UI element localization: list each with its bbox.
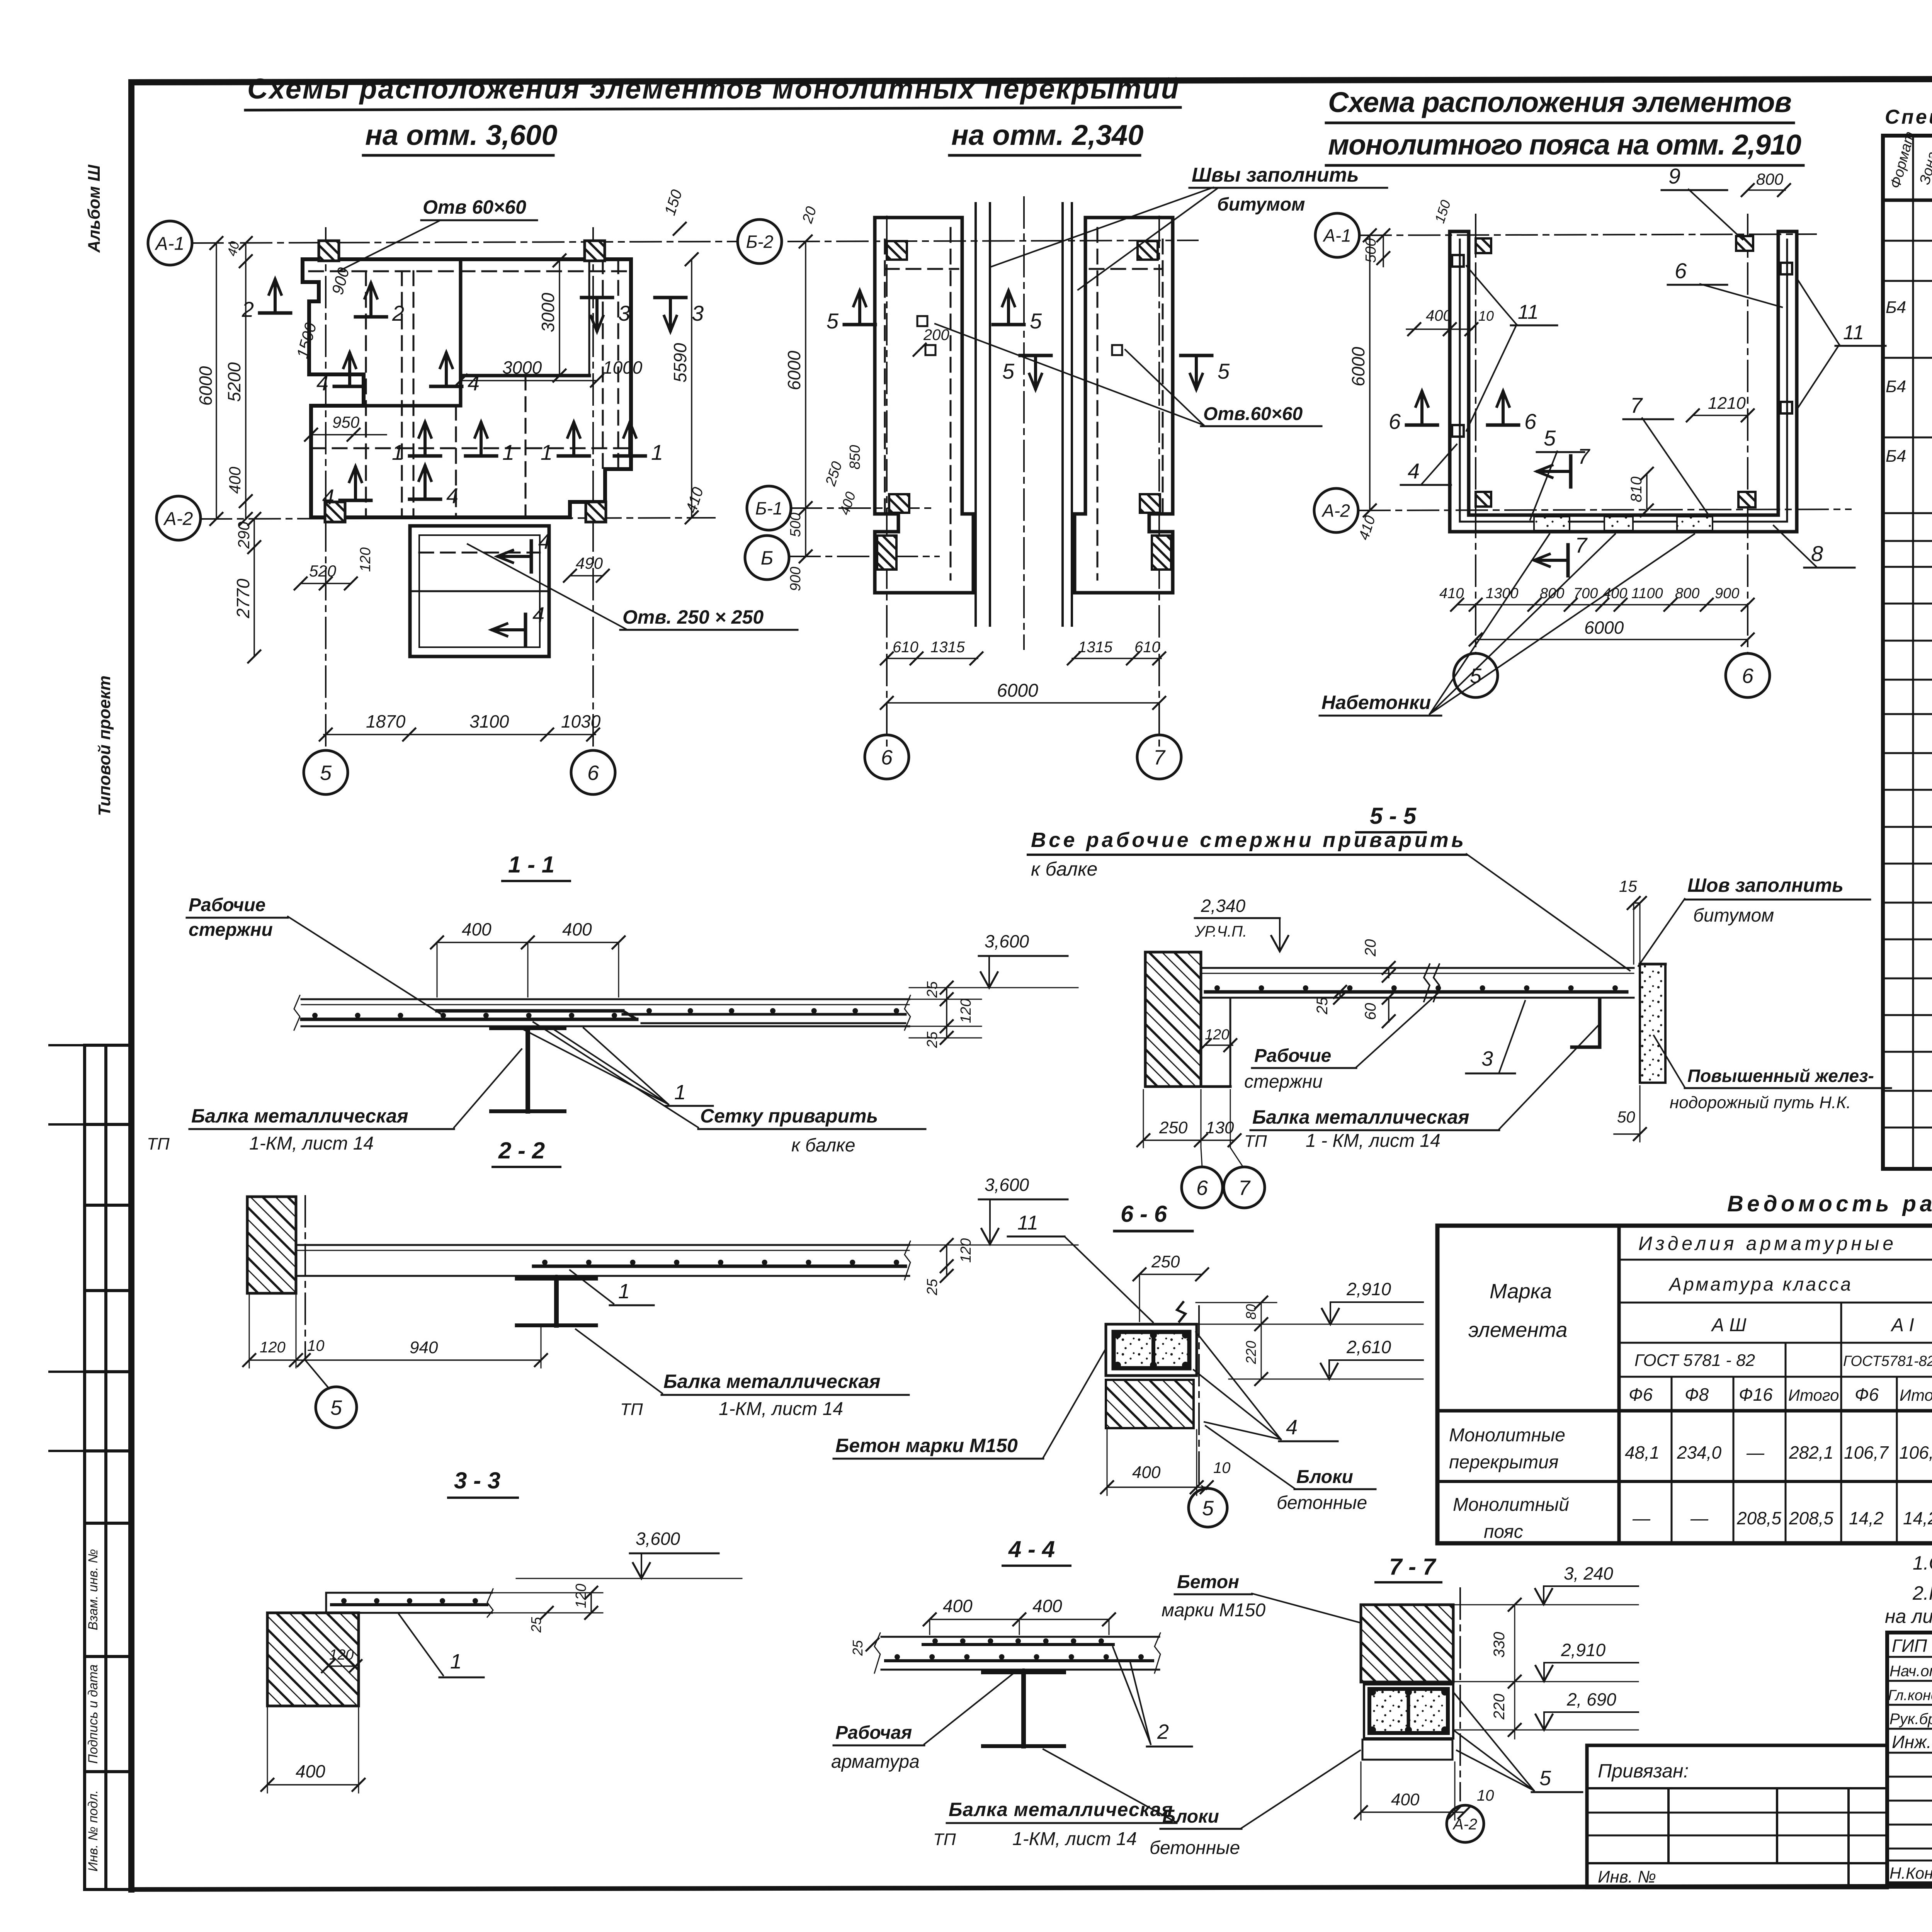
svg-text:4: 4	[538, 529, 550, 553]
svg-text:1: 1	[392, 440, 404, 464]
svg-text:6: 6	[1389, 409, 1401, 434]
section 2-2	[243, 1138, 1078, 1428]
plan1 bottom dimensions	[324, 734, 595, 735]
svg-text:Б4: Б4	[1886, 298, 1906, 317]
svg-text:Балка металлическая: Балка металлическая	[663, 1371, 881, 1392]
left margin rotated labels	[86, 1549, 100, 1872]
svg-text:5: 5	[1539, 1767, 1551, 1790]
svg-text:1-КМ, лист 14: 1-КМ, лист 14	[719, 1399, 843, 1419]
svg-text:—: —	[1690, 1508, 1709, 1528]
column pad 5/A-1	[319, 241, 339, 261]
svg-text:1 - 1: 1 - 1	[508, 852, 554, 878]
svg-text:ТП: ТП	[1244, 1132, 1267, 1151]
svg-text:Н.Контр.: Н.Контр.	[1889, 1864, 1932, 1882]
axis circle B-1	[747, 486, 791, 530]
svg-text:25: 25	[850, 1640, 866, 1656]
svg-text:330: 330	[1491, 1632, 1508, 1658]
svg-text:400: 400	[1132, 1463, 1161, 1482]
rebar block 7-7	[1364, 1684, 1453, 1738]
axis B-2 line	[788, 240, 1198, 241]
svg-text:Бетон: Бетон	[1177, 1572, 1239, 1592]
svg-text:7 - 7: 7 - 7	[1389, 1554, 1437, 1580]
plan2 small holes 60x60	[917, 316, 927, 326]
title block	[1887, 1633, 1932, 1883]
svg-text:2 - 2: 2 - 2	[498, 1138, 545, 1163]
svg-text:6000: 6000	[784, 350, 804, 390]
section 1-1	[147, 852, 1078, 1156]
svg-text:2,910: 2,910	[1346, 1279, 1391, 1299]
svg-text:к балке: к балке	[791, 1135, 855, 1156]
svg-text:1210: 1210	[1708, 394, 1746, 413]
main title line 1	[245, 73, 1932, 1216]
svg-text:2,610: 2,610	[1346, 1337, 1391, 1357]
column pad 5/A-2	[325, 502, 345, 522]
plan1 right dimensions	[691, 259, 692, 517]
svg-text:бетонные: бетонные	[1150, 1838, 1240, 1858]
svg-text:4: 4	[1408, 459, 1420, 483]
embedded parts MN4	[1452, 255, 1464, 267]
svg-text:400: 400	[296, 1761, 325, 1781]
svg-text:Арматура класса: Арматура класса	[1668, 1274, 1851, 1295]
axis 5 plan3	[1475, 214, 1476, 653]
svg-text:ГОСТ 5781 - 82: ГОСТ 5781 - 82	[1634, 1351, 1755, 1370]
svg-text:битумом: битумом	[1693, 905, 1774, 926]
svg-text:234,0: 234,0	[1677, 1442, 1722, 1463]
svg-text:120: 120	[1205, 1027, 1229, 1043]
svg-text:10: 10	[1478, 308, 1494, 324]
svg-text:2: 2	[392, 301, 404, 325]
svg-text:Подпись и дата: Подпись и дата	[86, 1664, 100, 1764]
circles 6 7 s55	[1182, 1167, 1223, 1208]
axis circle A-2 plan3	[1314, 488, 1358, 532]
svg-text:4: 4	[1286, 1416, 1298, 1439]
svg-text:3100: 3100	[469, 711, 509, 731]
svg-text:Блоки: Блоки	[1162, 1806, 1219, 1827]
svg-text:400: 400	[462, 919, 492, 939]
svg-text:3, 240: 3, 240	[1564, 1563, 1613, 1583]
svg-text:400: 400	[1426, 307, 1452, 324]
plan1 cut marks	[260, 311, 291, 315]
dim 120 inside s33	[328, 1665, 355, 1667]
wall 5-5	[1145, 952, 1201, 1087]
svg-text:Монолитные: Монолитные	[1449, 1425, 1565, 1446]
svg-text:А-2: А-2	[1452, 1816, 1477, 1833]
plan at elevation 2.340	[738, 164, 1387, 779]
svg-text:120: 120	[573, 1584, 589, 1608]
dim 400 400 s44	[930, 1619, 1109, 1620]
axis A-2	[201, 518, 715, 519]
svg-text:1.Общие указания см. АР, лист: 1.Общие указания см. АР, лист 2.	[1913, 1552, 1932, 1574]
svg-text:10: 10	[1477, 1787, 1494, 1804]
svg-text:9: 9	[1668, 164, 1680, 188]
svg-text:бетонные: бетонные	[1277, 1493, 1367, 1513]
belt block s66	[1106, 1324, 1197, 1376]
svg-text:410: 410	[1439, 585, 1464, 602]
svg-text:Ф16: Ф16	[1739, 1384, 1773, 1405]
svg-text:6000: 6000	[1584, 617, 1624, 638]
svg-text:7: 7	[1630, 393, 1643, 417]
svg-text:5: 5	[1544, 426, 1556, 450]
svg-text:4: 4	[316, 371, 328, 395]
plan2 lower pads	[877, 536, 896, 570]
svg-text:3,600: 3,600	[985, 1175, 1029, 1195]
svg-text:208,5: 208,5	[1789, 1508, 1834, 1528]
svg-text:Спецификация элементов к схема: Спецификация элементов к схемам, располо…	[1885, 106, 1932, 128]
svg-text:6: 6	[1675, 259, 1687, 283]
stair pit below plan1	[410, 526, 549, 656]
plan of monolithic belt at 2.910	[1314, 164, 1886, 716]
svg-text:208,5: 208,5	[1736, 1508, 1782, 1528]
axis circle 6 plan2	[865, 735, 909, 779]
svg-text:Монолитный: Монолитный	[1453, 1495, 1569, 1515]
hatched concrete 7-7	[1361, 1605, 1453, 1682]
svg-text:490: 490	[576, 554, 603, 572]
plan1 small dims	[301, 583, 351, 584]
svg-text:Ф8: Ф8	[1685, 1384, 1709, 1405]
vedomost steel table	[1437, 1226, 1932, 1543]
angle bracket beam 5-5	[1572, 999, 1600, 1047]
svg-text:ТП: ТП	[620, 1400, 643, 1419]
svg-text:стержни: стержни	[1244, 1071, 1323, 1092]
svg-text:Марка: Марка	[1490, 1280, 1552, 1303]
svg-text:6: 6	[1742, 664, 1754, 687]
svg-text:900: 900	[787, 567, 804, 591]
break marks slab ends 1-1	[294, 995, 300, 1030]
svg-text:1: 1	[618, 1280, 630, 1303]
svg-text:Отв 60×60: Отв 60×60	[423, 196, 526, 218]
svg-text:стержни: стержни	[189, 920, 273, 940]
svg-text:Схемы расположения элементов м: Схемы расположения элементов монолитных …	[247, 73, 1179, 105]
dim 400 10 s77	[1361, 1811, 1464, 1813]
notes	[1885, 1552, 1932, 1627]
slab 3-3	[326, 1592, 492, 1594]
svg-text:8: 8	[1811, 541, 1823, 566]
svg-text:УР.Ч.П.: УР.Ч.П.	[1194, 923, 1247, 940]
axis 5 (plan1)	[325, 228, 327, 750]
svg-text:на отм. 3,600: на отм. 3,600	[365, 119, 557, 151]
bottom block 7-7	[1362, 1740, 1452, 1760]
svg-text:1: 1	[541, 440, 553, 464]
svg-text:120: 120	[329, 1647, 354, 1663]
svg-text:48,1: 48,1	[1625, 1442, 1660, 1463]
svg-text:3: 3	[1481, 1047, 1493, 1070]
plan1 left dimensions	[216, 243, 217, 519]
I-beam 1-1	[491, 1026, 565, 1030]
right dims s33	[492, 1592, 603, 1594]
axis circle A-1 plan3	[1315, 213, 1359, 257]
section 3-3	[261, 1468, 742, 1793]
svg-text:10: 10	[307, 1337, 325, 1354]
svg-text:130: 130	[1206, 1118, 1234, 1137]
svg-text:Инв. №: Инв. №	[1598, 1867, 1656, 1886]
svg-text:6: 6	[587, 761, 599, 784]
slab 4-4	[881, 1636, 1159, 1638]
svg-text:А Ш: А Ш	[1711, 1315, 1747, 1335]
plan3 1210 and 810 dims	[1693, 415, 1748, 416]
axis 7 (plan2)	[1158, 216, 1160, 750]
svg-text:Бетон марки М150: Бетон марки М150	[835, 1435, 1018, 1456]
svg-text:11: 11	[1017, 1212, 1038, 1234]
dims 120 10 940	[249, 1359, 541, 1361]
svg-text:6: 6	[881, 746, 893, 769]
svg-text:5: 5	[1218, 359, 1230, 383]
svg-text:6: 6	[1524, 409, 1537, 434]
svg-text:220: 220	[1491, 1694, 1508, 1720]
dim 400 s33	[267, 1784, 359, 1786]
axis A-1	[192, 241, 736, 243]
svg-text:Отв.60×60: Отв.60×60	[1203, 404, 1303, 424]
axis circle A-2	[156, 496, 201, 540]
svg-text:Ф6: Ф6	[1629, 1384, 1653, 1405]
plan2 column pads	[887, 241, 907, 260]
svg-text:на листе 2.: на листе 2.	[1885, 1605, 1932, 1627]
block bottom hatched s66	[1106, 1380, 1194, 1428]
svg-text:1100: 1100	[1631, 585, 1663, 602]
svg-text:Ф6: Ф6	[1855, 1384, 1879, 1405]
wall 3-3	[267, 1613, 359, 1706]
svg-text:1-КМ, лист 14: 1-КМ, лист 14	[1012, 1829, 1137, 1849]
plan3 bottom dims	[1457, 604, 1748, 605]
left slab outline plan2	[875, 218, 973, 593]
svg-text:арматура: арматура	[831, 1752, 920, 1772]
svg-text:800: 800	[1756, 170, 1784, 188]
svg-text:1: 1	[651, 440, 663, 464]
axis circle A-1	[148, 221, 192, 265]
svg-text:25: 25	[924, 1279, 940, 1296]
svg-text:220: 220	[1243, 1341, 1259, 1364]
axis A-2 plan3	[1359, 509, 1851, 510]
svg-text:520: 520	[309, 562, 337, 580]
svg-text:3000: 3000	[538, 293, 558, 332]
spec table header texts	[1887, 130, 1932, 196]
svg-text:15: 15	[1619, 877, 1637, 895]
svg-text:Итого: Итого	[1788, 1386, 1839, 1404]
svg-text:14,2: 14,2	[1849, 1508, 1884, 1528]
svg-text:Рабочие: Рабочие	[189, 895, 265, 915]
svg-text:Типовой проект: Типовой проект	[95, 675, 114, 816]
svg-text:ТП: ТП	[147, 1134, 170, 1153]
privyazan box	[1587, 1745, 1887, 1888]
svg-text:940: 940	[410, 1338, 438, 1357]
svg-text:1 - КМ, лист 14: 1 - КМ, лист 14	[1306, 1131, 1440, 1151]
right dims s22	[946, 1245, 947, 1276]
svg-text:250: 250	[1151, 1252, 1180, 1271]
svg-text:2.Расчётные нагрузки на перекр: 2.Расчётные нагрузки на перекрытия даны	[1912, 1582, 1932, 1604]
svg-text:5: 5	[1470, 664, 1482, 687]
svg-text:Схема расположения элементов: Схема расположения элементов	[1328, 86, 1792, 118]
svg-text:А-1: А-1	[1322, 226, 1351, 246]
plan3 left dims	[1369, 235, 1371, 510]
svg-text:400: 400	[562, 919, 592, 939]
svg-text:4: 4	[468, 371, 480, 395]
svg-text:610: 610	[1134, 639, 1160, 656]
svg-text:Б-1: Б-1	[755, 498, 783, 519]
I-beam 4-4	[983, 1670, 1064, 1674]
svg-text:Б-2: Б-2	[746, 232, 774, 252]
svg-text:7: 7	[1153, 746, 1166, 769]
spec table body	[1886, 212, 1932, 1128]
svg-text:106,7: 106,7	[1844, 1442, 1889, 1463]
svg-text:Привязан:: Привязан:	[1598, 1760, 1689, 1782]
dim 400 400 s11	[437, 942, 619, 943]
svg-text:Набетонки: Набетонки	[1321, 692, 1431, 713]
svg-text:120: 120	[958, 999, 974, 1023]
axis B line	[789, 556, 939, 557]
svg-text:610: 610	[893, 639, 918, 656]
svg-text:1315: 1315	[930, 639, 965, 656]
svg-text:Рабочие: Рабочие	[1254, 1046, 1331, 1066]
svg-text:5: 5	[827, 309, 839, 333]
svg-text:5 - 5: 5 - 5	[1370, 803, 1417, 829]
svg-text:—: —	[1632, 1508, 1651, 1528]
svg-text:1315: 1315	[1078, 639, 1113, 656]
axis 6 (plan1)	[592, 228, 594, 750]
plan2 left dims	[805, 241, 806, 556]
plan1 inner dashed slab edge	[309, 270, 630, 272]
svg-text:монолитного пояса на отм. 2,91: монолитного пояса на отм. 2,910	[1328, 129, 1801, 161]
svg-text:2,340: 2,340	[1201, 896, 1246, 916]
plan1 dashed partitions	[365, 271, 367, 517]
nabetonka stipple spans	[1534, 517, 1570, 531]
svg-text:пояс: пояс	[1484, 1522, 1523, 1542]
plan1 interior walls	[459, 260, 463, 406]
svg-text:Изделия арматурные: Изделия арматурные	[1638, 1233, 1893, 1254]
wall 2-2	[247, 1197, 296, 1293]
rail pier 5-5	[1640, 964, 1665, 1083]
svg-text:7: 7	[1575, 533, 1588, 557]
svg-text:5: 5	[320, 761, 332, 784]
slab 2-2	[298, 1244, 909, 1246]
wall dims s55	[1143, 1139, 1235, 1141]
belt inner lines	[1459, 240, 1461, 522]
svg-text:ТП: ТП	[933, 1830, 956, 1849]
svg-text:1-КМ, лист 14: 1-КМ, лист 14	[249, 1133, 374, 1154]
svg-text:60: 60	[1362, 1003, 1379, 1020]
plan3 cut marks	[1406, 423, 1437, 427]
svg-text:1: 1	[502, 440, 514, 464]
svg-text:2: 2	[1157, 1720, 1169, 1743]
svg-text:11: 11	[1843, 321, 1864, 344]
svg-text:1: 1	[674, 1081, 686, 1104]
svg-text:5: 5	[1030, 309, 1042, 333]
svg-text:4: 4	[322, 485, 334, 509]
svg-text:Балка металлическая: Балка металлическая	[1252, 1106, 1469, 1128]
svg-text:к балке: к балке	[1031, 858, 1098, 880]
svg-text:810: 810	[1628, 476, 1645, 502]
svg-text:3,600: 3,600	[636, 1529, 680, 1549]
svg-text:500: 500	[787, 513, 804, 537]
axis 6 plan3	[1747, 214, 1748, 653]
svg-text:25: 25	[924, 1031, 940, 1048]
svg-text:10: 10	[1213, 1459, 1231, 1476]
svg-text:ГОСТ5781-82: ГОСТ5781-82	[1843, 1353, 1932, 1369]
svg-text:11: 11	[1518, 301, 1539, 323]
section 4-4	[831, 1536, 1192, 1849]
section 5-5	[1028, 803, 1891, 1208]
svg-text:25: 25	[1314, 997, 1331, 1015]
staff table grid	[1887, 1633, 1932, 1883]
svg-text:2770: 2770	[233, 578, 253, 619]
svg-text:5: 5	[330, 1396, 342, 1419]
axis 6 (plan2)	[886, 216, 888, 750]
svg-text:3,600: 3,600	[985, 931, 1029, 951]
section 6-6	[833, 1201, 1423, 1527]
specification table	[1883, 136, 1932, 1169]
svg-text:400: 400	[1391, 1790, 1420, 1809]
svg-text:Гл.констр.: Гл.констр.	[1888, 1687, 1932, 1704]
svg-text:2, 690: 2, 690	[1566, 1689, 1616, 1709]
svg-text:Взам. инв. №: Взам. инв. №	[86, 1549, 100, 1630]
slab 1-1	[301, 998, 909, 1000]
svg-text:Б: Б	[761, 547, 774, 569]
svg-text:120: 120	[958, 1238, 974, 1263]
axis dashed + circle A-2 s77	[1459, 1588, 1461, 1801]
axis circle B-2	[738, 219, 782, 264]
svg-text:А-2: А-2	[1321, 501, 1350, 521]
svg-text:перекрытия: перекрытия	[1449, 1452, 1559, 1473]
svg-text:5200: 5200	[224, 362, 244, 402]
svg-text:Инв. № подл.: Инв. № подл.	[86, 1790, 100, 1872]
dim 250 s66	[1139, 1274, 1202, 1275]
svg-text:120: 120	[357, 548, 374, 572]
svg-text:5: 5	[1002, 359, 1015, 383]
svg-text:Альбом Ш: Альбом Ш	[85, 164, 104, 253]
svg-text:Нач.отд.: Нач.отд.	[1889, 1663, 1932, 1680]
svg-text:6000: 6000	[196, 366, 216, 406]
svg-text:А-2: А-2	[163, 509, 193, 529]
svg-text:120: 120	[260, 1339, 286, 1356]
svg-text:марки М150: марки М150	[1162, 1600, 1265, 1621]
svg-text:700: 700	[1573, 585, 1598, 602]
left slab dashed inner	[885, 268, 958, 270]
axis A-1 plan3	[1360, 234, 1816, 235]
svg-text:ГИП: ГИП	[1892, 1636, 1927, 1656]
svg-text:6000: 6000	[1348, 347, 1368, 386]
plan at elevation 3.600	[148, 188, 798, 794]
title block texts	[1888, 1635, 1932, 1905]
svg-text:6000: 6000	[997, 680, 1038, 701]
svg-text:950: 950	[332, 413, 360, 431]
svg-text:Рабочая: Рабочая	[835, 1723, 912, 1743]
svg-text:50: 50	[1617, 1108, 1635, 1126]
svg-text:850: 850	[847, 445, 863, 469]
svg-text:Б4: Б4	[1886, 377, 1906, 396]
svg-text:3 - 3: 3 - 3	[454, 1468, 500, 1493]
axis line + circle 5 s66	[1198, 1306, 1200, 1484]
I-beam 2-2	[517, 1277, 596, 1281]
svg-text:битумом: битумом	[1217, 194, 1305, 215]
svg-text:290: 290	[235, 521, 253, 549]
plan2 bottom dims	[887, 658, 978, 659]
svg-text:4 - 4: 4 - 4	[1008, 1536, 1055, 1562]
vedomost data rows	[1449, 1425, 1932, 1542]
column pad 6/A-1	[585, 241, 605, 261]
svg-text:4: 4	[532, 602, 544, 627]
svg-text:Блоки: Блоки	[1296, 1467, 1353, 1487]
svg-text:Итого: Итого	[1900, 1386, 1932, 1404]
svg-text:Б4: Б4	[1886, 447, 1906, 466]
svg-text:200: 200	[923, 327, 949, 344]
mesh bars 1-1	[437, 1009, 623, 1013]
svg-text:400: 400	[226, 466, 244, 494]
svg-text:6: 6	[1196, 1176, 1208, 1199]
belt outer outline	[1450, 231, 1797, 532]
svg-text:нодорожный путь Н.К.: нодорожный путь Н.К.	[1670, 1093, 1851, 1112]
svg-text:Шов заполнить: Шов заполнить	[1687, 874, 1844, 896]
svg-text:А I: А I	[1890, 1315, 1914, 1335]
axis circle 5 plan3	[1454, 653, 1498, 697]
svg-text:на отм. 2,340: на отм. 2,340	[951, 119, 1143, 151]
